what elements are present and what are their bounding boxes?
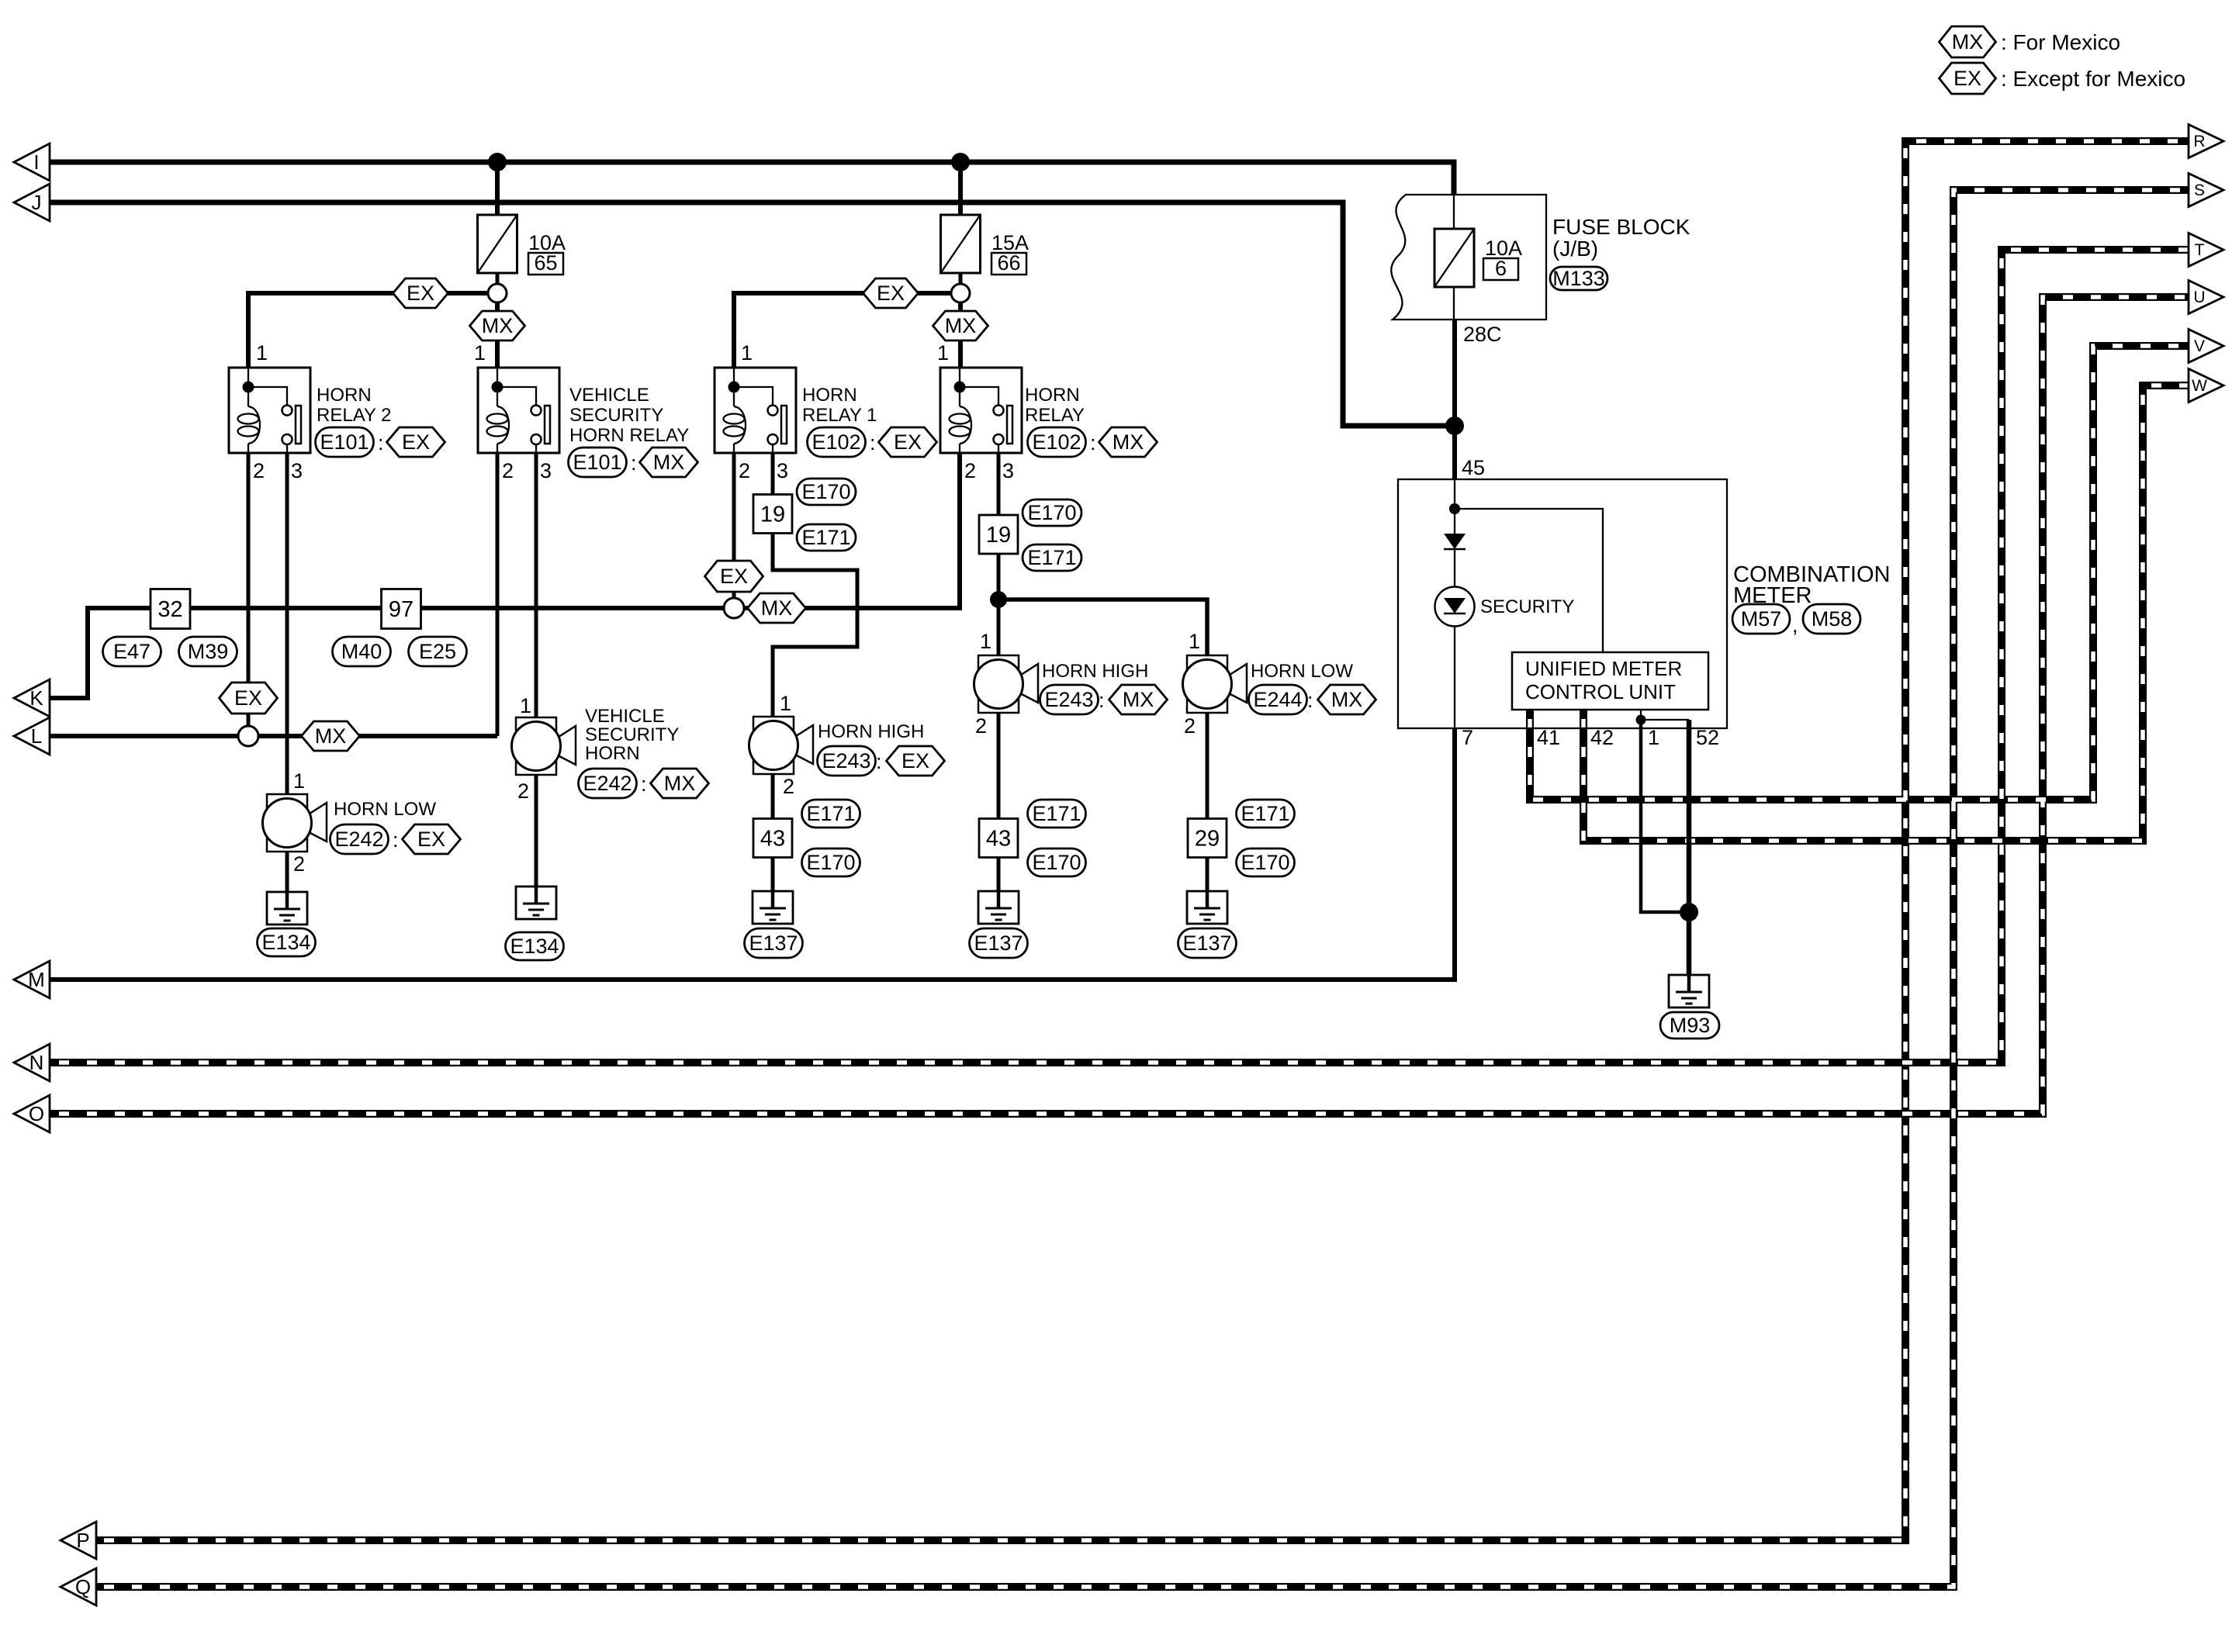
svg-text:E101: E101 <box>320 430 369 454</box>
svg-text:65: 65 <box>534 251 557 275</box>
svg-text:E134: E134 <box>261 931 310 954</box>
svg-text:EX: EX <box>407 282 434 305</box>
svg-text:2: 2 <box>253 459 265 482</box>
svg-text:M133: M133 <box>1552 267 1605 290</box>
svg-text:MX: MX <box>1952 30 1984 54</box>
svg-text:SECURITY: SECURITY <box>569 405 663 426</box>
svg-text:43: 43 <box>760 827 785 852</box>
svg-text:EX: EX <box>402 430 430 454</box>
svg-text:E243: E243 <box>1044 688 1093 711</box>
svg-text:1: 1 <box>256 341 268 365</box>
svg-text:MX: MX <box>482 314 514 337</box>
svg-text:1: 1 <box>1648 726 1659 749</box>
svg-text:E171: E171 <box>801 526 850 549</box>
svg-text:EX: EX <box>234 686 262 710</box>
svg-text:1: 1 <box>293 769 305 793</box>
svg-text:L: L <box>31 724 42 748</box>
svg-text:J: J <box>32 191 42 214</box>
svg-text:MX: MX <box>653 451 685 474</box>
svg-text:2: 2 <box>293 852 305 876</box>
svg-text:E170: E170 <box>1027 501 1076 524</box>
svg-text:EX: EX <box>417 828 445 851</box>
svg-text:19: 19 <box>760 503 785 527</box>
svg-text:45: 45 <box>1462 456 1485 479</box>
svg-text:E102: E102 <box>1032 430 1081 454</box>
svg-text:HORN HIGH: HORN HIGH <box>818 721 924 742</box>
svg-text:RELAY 2: RELAY 2 <box>317 405 392 426</box>
svg-text:1: 1 <box>474 341 486 365</box>
svg-text:E244: E244 <box>1253 688 1302 711</box>
svg-text:E242: E242 <box>583 772 632 795</box>
svg-text:MX: MX <box>664 772 696 795</box>
svg-text:66: 66 <box>997 251 1020 275</box>
svg-text:E102: E102 <box>812 430 860 454</box>
svg-text:: For Mexico: : For Mexico <box>2001 30 2120 54</box>
svg-text:3: 3 <box>777 459 788 482</box>
svg-text:K: K <box>29 686 43 710</box>
svg-text:32: 32 <box>157 597 182 622</box>
svg-text::: : <box>876 750 882 773</box>
svg-text:,: , <box>1792 613 1798 637</box>
svg-text:2: 2 <box>739 459 750 482</box>
svg-text:CONTROL UNIT: CONTROL UNIT <box>1525 680 1676 703</box>
svg-text:T: T <box>2195 241 2205 259</box>
svg-text:MX: MX <box>315 724 347 748</box>
svg-text:E137: E137 <box>974 931 1023 955</box>
svg-text:28C: 28C <box>1463 323 1502 346</box>
svg-text::: : <box>1090 431 1096 454</box>
svg-text:6: 6 <box>1495 257 1507 280</box>
svg-text:EX: EX <box>1954 67 1981 90</box>
svg-text:HORN HIGH: HORN HIGH <box>1042 661 1148 682</box>
svg-text:1: 1 <box>780 692 791 715</box>
svg-text:S: S <box>2194 181 2205 199</box>
svg-text:E170: E170 <box>1241 851 1289 874</box>
svg-text:7: 7 <box>1462 726 1473 749</box>
svg-text:1: 1 <box>741 341 753 365</box>
svg-text:43: 43 <box>986 827 1011 852</box>
svg-text:M93: M93 <box>1670 1014 1711 1037</box>
svg-text:29: 29 <box>1195 827 1220 852</box>
svg-text:3: 3 <box>1002 459 1014 482</box>
svg-text:HORN: HORN <box>802 385 857 406</box>
svg-text:HORN: HORN <box>585 743 640 764</box>
svg-text:M39: M39 <box>188 640 229 663</box>
svg-text:MX: MX <box>1123 688 1154 711</box>
svg-text:SECURITY: SECURITY <box>585 724 679 745</box>
svg-text:E171: E171 <box>806 802 855 825</box>
svg-text:E171: E171 <box>1027 546 1076 569</box>
svg-text::: : <box>1099 689 1105 712</box>
svg-text:UNIFIED METER: UNIFIED METER <box>1525 657 1682 680</box>
svg-text:E171: E171 <box>1241 802 1289 825</box>
svg-text:E170: E170 <box>1032 851 1081 874</box>
svg-text:MX: MX <box>761 596 793 620</box>
svg-text:1: 1 <box>937 341 949 365</box>
svg-text:2: 2 <box>783 775 794 798</box>
svg-text:VEHICLE: VEHICLE <box>569 385 649 406</box>
svg-text:M: M <box>28 968 45 991</box>
svg-text:: Except for Mexico: : Except for Mexico <box>2001 67 2185 91</box>
svg-text::: : <box>393 828 399 852</box>
svg-text:EX: EX <box>877 282 905 305</box>
svg-text:E137: E137 <box>1182 931 1231 955</box>
svg-text:M57: M57 <box>1741 607 1782 631</box>
svg-text:EX: EX <box>901 749 929 772</box>
svg-text:HORN: HORN <box>1025 385 1080 406</box>
svg-text:2: 2 <box>975 714 987 738</box>
svg-text:52: 52 <box>1696 726 1719 749</box>
svg-text:HORN LOW: HORN LOW <box>334 799 436 820</box>
svg-text::: : <box>641 772 647 796</box>
svg-text:EX: EX <box>894 430 922 454</box>
svg-text:V: V <box>2194 337 2205 355</box>
svg-text::: : <box>870 431 876 454</box>
svg-text::: : <box>1307 689 1313 712</box>
svg-text:3: 3 <box>291 459 303 482</box>
svg-text:VEHICLE: VEHICLE <box>585 706 665 727</box>
svg-text:3: 3 <box>540 459 552 482</box>
svg-text:M58: M58 <box>1812 607 1853 631</box>
svg-text:I: I <box>33 150 39 174</box>
svg-text:42: 42 <box>1590 726 1614 749</box>
svg-text:E134: E134 <box>510 935 559 958</box>
svg-text:W: W <box>2192 377 2207 395</box>
svg-text:41: 41 <box>1537 726 1560 749</box>
svg-text:19: 19 <box>986 523 1011 548</box>
svg-text:2: 2 <box>964 459 976 482</box>
svg-text:MX: MX <box>1113 430 1144 454</box>
svg-text:1: 1 <box>1189 630 1200 653</box>
svg-text:E170: E170 <box>801 480 850 503</box>
svg-text::: : <box>631 451 637 475</box>
svg-text:E47: E47 <box>113 640 151 663</box>
svg-text:O: O <box>29 1102 44 1125</box>
svg-text:HORN: HORN <box>317 385 372 406</box>
svg-text:1: 1 <box>520 694 531 717</box>
svg-text:E101: E101 <box>573 451 621 474</box>
svg-text:E242: E242 <box>334 828 383 851</box>
svg-text:P: P <box>76 1529 89 1552</box>
svg-text:E243: E243 <box>822 749 870 772</box>
svg-text:E170: E170 <box>806 851 855 874</box>
svg-text:R: R <box>2193 133 2205 150</box>
svg-text:M40: M40 <box>341 640 382 663</box>
svg-text:E137: E137 <box>749 931 798 955</box>
svg-text:2: 2 <box>502 459 514 482</box>
svg-text:(J/B): (J/B) <box>1552 237 1598 261</box>
svg-text:1: 1 <box>980 630 991 653</box>
svg-text:E171: E171 <box>1032 802 1081 825</box>
svg-text::: : <box>378 431 384 454</box>
svg-text:N: N <box>29 1051 44 1074</box>
svg-text:Q: Q <box>75 1575 91 1598</box>
svg-text:MX: MX <box>1331 688 1363 711</box>
svg-text:97: 97 <box>389 597 414 622</box>
svg-text:RELAY: RELAY <box>1025 405 1085 426</box>
svg-text:SECURITY: SECURITY <box>1480 596 1574 617</box>
svg-text:HORN RELAY: HORN RELAY <box>569 425 689 446</box>
svg-text:U: U <box>2193 289 2205 306</box>
svg-text:FUSE BLOCK: FUSE BLOCK <box>1552 215 1690 239</box>
svg-text:RELAY 1: RELAY 1 <box>802 405 877 426</box>
svg-text:MX: MX <box>945 314 977 337</box>
svg-text:E25: E25 <box>419 640 456 663</box>
svg-text:2: 2 <box>1184 714 1196 738</box>
svg-text:EX: EX <box>720 565 748 588</box>
svg-text:2: 2 <box>517 779 529 803</box>
svg-text:HORN LOW: HORN LOW <box>1251 661 1353 682</box>
